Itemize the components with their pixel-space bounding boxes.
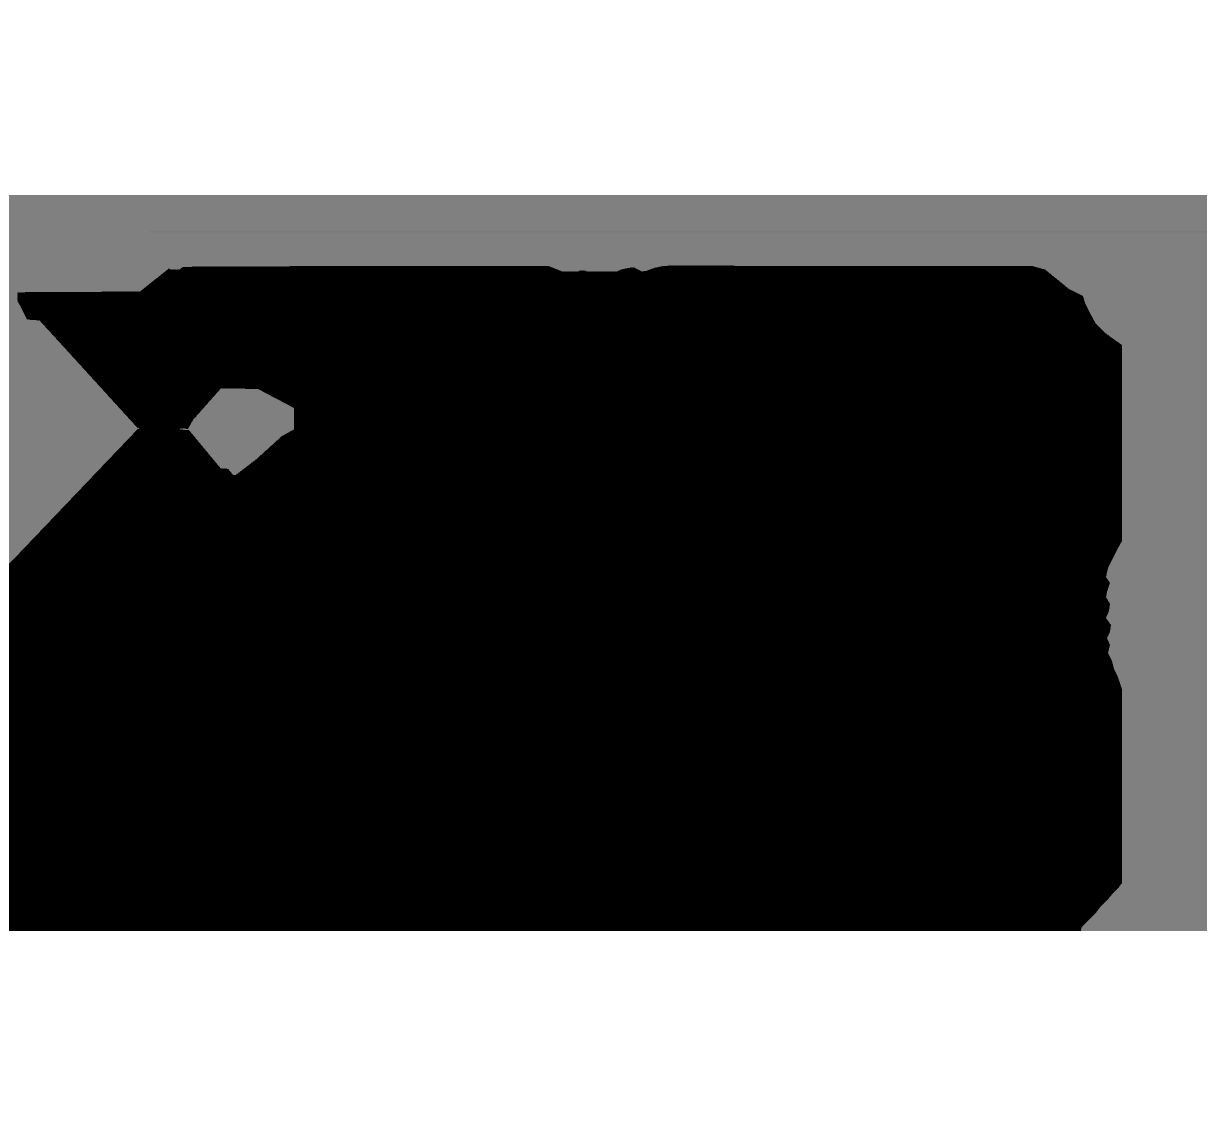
thin gray spike at diamond tip: [180, 428, 189, 430]
banner gray panel: [9, 195, 1207, 931]
thin gray spike at left arrow tip: [133, 427, 140, 429]
gray diamond counter: [188, 388, 294, 475]
black silhouette mass: [9, 266, 1122, 931]
faint dark line across upper band: [150, 231, 1207, 233]
